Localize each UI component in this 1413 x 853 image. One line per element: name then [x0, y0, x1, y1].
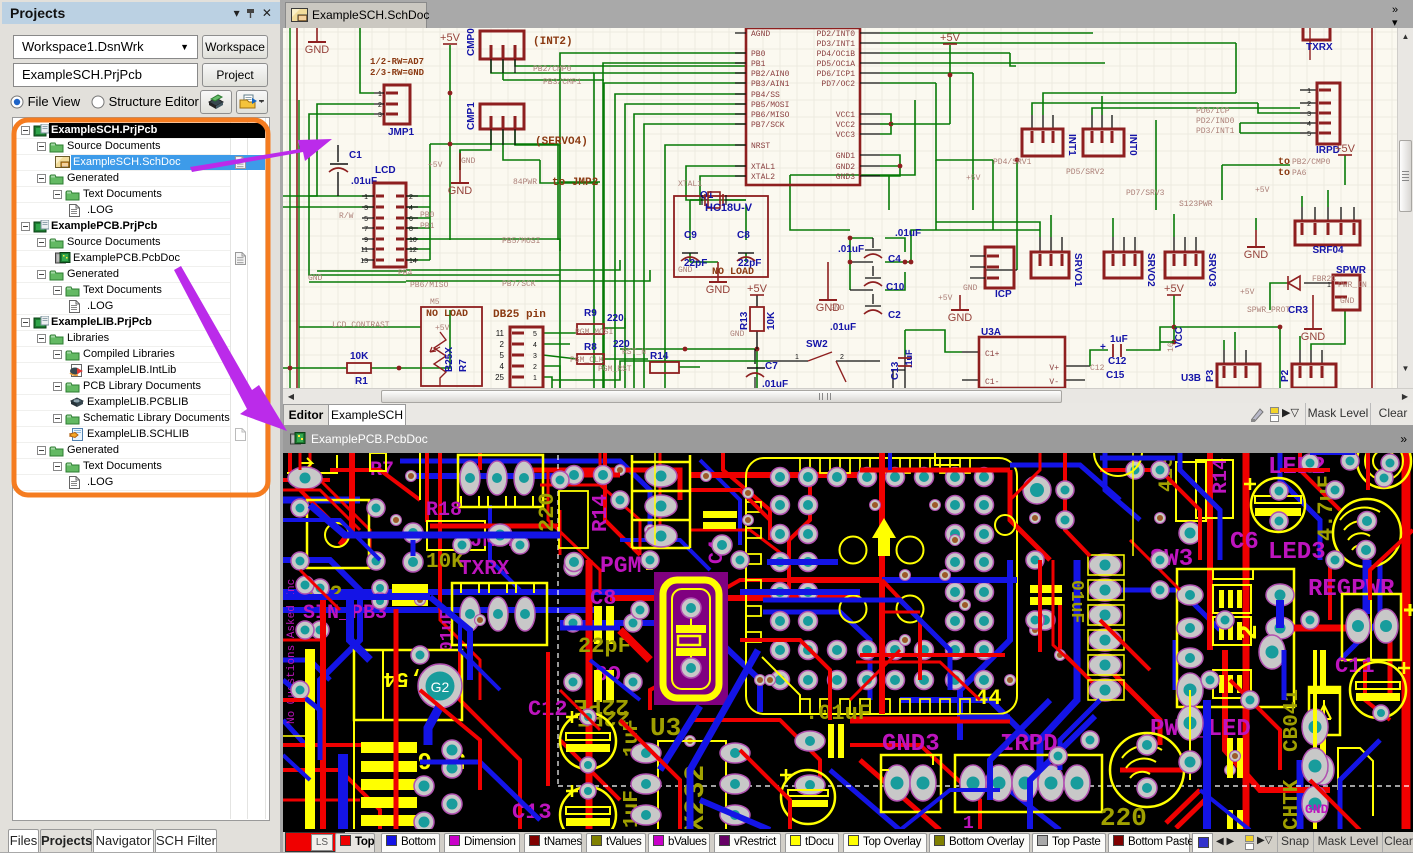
wire to JMP2: [540, 160, 598, 183]
red col x1065: [1065, 453, 1090, 556]
connector pads: [442, 758, 462, 778]
+5V at TXRX: [1344, 155, 1346, 185]
resistor R13: [750, 307, 764, 331]
connector INT0: [1083, 129, 1124, 156]
right top: IC right pin wires: [880, 32, 1093, 34]
capacitor C4 bars: [703, 511, 737, 518]
connector P2: [1292, 364, 1336, 388]
cap C4 yellow: [1030, 585, 1062, 593]
GND stem right: [1255, 230, 1257, 247]
G2 box: [354, 650, 462, 720]
cap bars right: [828, 724, 834, 758]
LCD right pin wires: [406, 195, 430, 197]
connector TXRX: [1303, 28, 1330, 40]
corner yellow box: [1338, 748, 1373, 816]
wire CMP0 pins down: [491, 59, 594, 73]
TQFP pin loops: [747, 459, 970, 713]
connector INT1: [1022, 129, 1063, 156]
silk L top-left: [287, 455, 337, 473]
dashed outline vertical: [557, 455, 559, 786]
capacitor C9: [682, 252, 698, 254]
LED3 footprint: [1333, 499, 1401, 567]
SRF04 pins: [1301, 207, 1303, 221]
capacitor C8: [738, 252, 754, 254]
crystal symbol: [702, 195, 726, 205]
column big ovals right of TQFP: [1089, 554, 1121, 576]
connector CMP1: [480, 104, 524, 129]
speaker footprint: [1110, 733, 1184, 807]
gnd loop: [880, 155, 900, 176]
wire XTAL1: [686, 166, 746, 200]
schematic vertical scrollbar: [1397, 28, 1413, 388]
wire DB25 to resistors: [543, 332, 577, 334]
connector SRF04: [1295, 221, 1360, 245]
dashed outline horizontal: [558, 785, 1413, 787]
wire blue traces: [283, 497, 360, 504]
switch SW2 footprint: [307, 500, 369, 568]
board edge yellow bar: [305, 649, 315, 830]
wire PB4/PB6 labels row: [317, 270, 406, 272]
pads mid top: [565, 466, 584, 485]
misc right edge pads: [1301, 454, 1319, 472]
PCB_START: [283, 453, 1413, 829]
wire bundle: IC left pin fan: [560, 53, 746, 388]
wire lcd_contrast: [299, 326, 421, 328]
connector P3: [1217, 364, 1260, 388]
SCH_START: [283, 28, 1413, 388]
pads col 413: [403, 523, 423, 543]
wire CMP1 pins: [460, 129, 491, 170]
arc circle top: [1094, 428, 1142, 476]
empty yellow box: [559, 491, 588, 548]
pad P1: [288, 467, 322, 489]
electrolytic C11: [1350, 662, 1406, 718]
yellow vertical line right: [1132, 453, 1134, 556]
connector GND3: [881, 755, 941, 812]
wire XTAL2: [700, 176, 746, 205]
gnd SRF04: [1247, 246, 1265, 248]
big green loop right of crystal: [790, 175, 850, 230]
right mid wires: [1016, 160, 1018, 270]
extra blue traces: [283, 594, 430, 600]
wire R1 row: [283, 367, 347, 369]
servo wires vertical: [1039, 237, 1041, 252]
connector SRVO3: [1165, 252, 1203, 278]
wire CMP0 nets to IC: [531, 65, 746, 67]
pads near C8: [564, 558, 582, 576]
TQFP U1 44-pin outline: [746, 458, 1017, 714]
connector top-middle 3pad vertical: [632, 455, 690, 548]
wire RST_N row: [620, 349, 757, 388]
gnd below crystal: [709, 281, 727, 283]
SW3 box: [1176, 462, 1206, 521]
pwr pads: [1177, 673, 1203, 707]
schematic canvas: [283, 28, 1413, 388]
wire red traces: [340, 453, 352, 545]
gnd middle: [451, 182, 469, 184]
sheet border: [297, 28, 1372, 388]
diode CR041: [1309, 687, 1340, 735]
wire top-left verticals: [360, 28, 374, 93]
right chrome: [283, 0, 1413, 28]
pads col right: [1259, 635, 1285, 669]
IRPD pin wires: [1300, 89, 1317, 91]
cap stack C4 C10 C2: [865, 238, 881, 250]
extra red traces: [299, 453, 302, 470]
resistor R14: [650, 362, 679, 373]
gnd SPWR: [1304, 328, 1322, 330]
TQFP via grid: [771, 468, 790, 487]
potentiometer R7 B25X NO LOAD: [421, 307, 482, 386]
brown vias: [870, 500, 881, 511]
connector PWR2: [1342, 594, 1401, 660]
TQFP cross traces: [879, 453, 885, 714]
left panel: [0, 0, 280, 852]
connector SRVO1: [1031, 252, 1069, 278]
R13 rail: [756, 295, 758, 349]
connector REG: [1177, 569, 1294, 707]
big IC U1: [746, 28, 860, 185]
crystal box Q1 NO LOAD: [674, 196, 768, 277]
crystal connections: [690, 199, 702, 201]
G2 pad: [418, 664, 462, 708]
vcc loop: [880, 114, 891, 134]
C13: [904, 355, 906, 390]
big octagon pad: [1023, 476, 1051, 504]
SPWR wires: [1304, 282, 1333, 284]
red double diagonal: [1166, 790, 1200, 823]
connector SRVO2: [1104, 252, 1142, 278]
connector JMP1: [384, 85, 410, 124]
red verticals left: [320, 600, 326, 830]
LED2 footprint: [1357, 434, 1411, 488]
blue thick left: [338, 754, 348, 830]
connector yellow bars: [361, 742, 417, 753]
connector IRPD: [955, 755, 1102, 812]
bottom layer bar: [283, 832, 1413, 852]
connector CON-A (3 pad): [458, 455, 543, 507]
connector ICP: [985, 247, 1014, 288]
bottom blue thick: [700, 800, 770, 830]
INT pins wires: [1031, 115, 1033, 129]
+5V stem right: [949, 45, 951, 124]
annotation arrow to schematic: [190, 139, 332, 172]
extra vias left: [296, 576, 314, 594]
gnd below ICP: [959, 295, 961, 310]
extra vias right: [1026, 551, 1044, 569]
crystal Y1 purple block: [654, 572, 728, 705]
cap stack C4/C10/C2 wires: [850, 237, 873, 239]
electrolytic right: [781, 770, 835, 824]
diode CR3: [1288, 276, 1300, 290]
LCD area wires: [283, 195, 374, 197]
cap pair yellow: [1227, 738, 1233, 778]
yellow details: [419, 453, 421, 500]
C7: [754, 349, 756, 364]
TQFP yellow circles: [840, 537, 867, 564]
PCB canvas: [283, 453, 1413, 832]
wire +5V rail C1/JMP1: [449, 45, 451, 240]
big ovals right col: [1302, 709, 1328, 745]
LS layer box: [285, 832, 345, 852]
annotation arrow to PCB: [174, 266, 287, 431]
wire PB5 run: [406, 239, 560, 251]
blue mid horizontal: [310, 505, 560, 535]
connector IRPD: [1317, 83, 1340, 144]
P3/P2 wires: [1223, 350, 1225, 364]
ground top-left: [316, 28, 318, 42]
wire NRST: [665, 145, 746, 388]
up arrow: [872, 518, 896, 556]
long verticals right: [936, 83, 993, 160]
filler traces: [546, 652, 550, 786]
left panel bottom tabs: [8, 829, 39, 852]
SW2 row: [770, 360, 808, 362]
gnd mid stem: [459, 150, 461, 170]
gnd cap stack: [819, 299, 837, 301]
capacitor C6 electrolytic: [1251, 478, 1305, 532]
U3A wires: [962, 351, 979, 353]
annotation highlight box (orange): [14, 120, 268, 495]
connector CMP0: [480, 31, 524, 59]
cap yellow small: [392, 584, 428, 593]
